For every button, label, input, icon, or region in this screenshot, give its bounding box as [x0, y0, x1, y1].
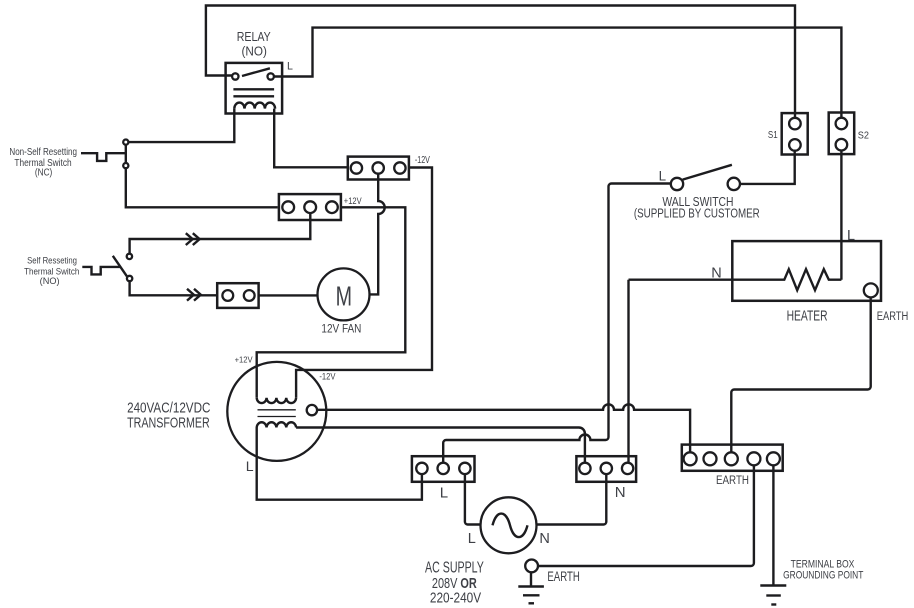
- svg-text:L: L: [847, 228, 855, 244]
- svg-text:GROUNDING POINT: GROUNDING POINT: [783, 570, 864, 582]
- svg-text:12V FAN: 12V FAN: [321, 322, 361, 336]
- svg-text:EARTH: EARTH: [716, 473, 749, 487]
- svg-text:(NO): (NO): [242, 44, 267, 59]
- svg-text:Self Resseting: Self Resseting: [27, 256, 77, 266]
- svg-text:RELAY: RELAY: [237, 29, 271, 44]
- svg-text:220-240V: 220-240V: [430, 591, 482, 607]
- svg-text:N: N: [539, 531, 549, 547]
- svg-text:L: L: [468, 531, 476, 547]
- svg-text:-12V: -12V: [415, 155, 430, 166]
- svg-text:M: M: [336, 281, 352, 312]
- svg-text:EARTH: EARTH: [547, 569, 579, 584]
- svg-text:TRANSFORMER: TRANSFORMER: [127, 414, 210, 431]
- svg-text:(NC): (NC): [35, 167, 52, 178]
- svg-text:Non-Self Resetting: Non-Self Resetting: [9, 147, 77, 158]
- svg-text:N: N: [711, 265, 721, 281]
- svg-text:L: L: [440, 485, 448, 502]
- svg-text:AC SUPPLY: AC SUPPLY: [425, 559, 484, 576]
- svg-text:EARTH: EARTH: [877, 309, 909, 323]
- svg-text:L: L: [246, 458, 254, 474]
- svg-text:+12V: +12V: [235, 355, 253, 365]
- svg-text:L: L: [287, 61, 293, 73]
- svg-text:S2: S2: [858, 130, 869, 141]
- svg-text:N: N: [615, 484, 626, 501]
- svg-text:208V OR: 208V OR: [432, 576, 477, 592]
- svg-text:(NO): (NO): [40, 276, 60, 286]
- svg-text:L: L: [659, 169, 666, 184]
- svg-text:+12V: +12V: [344, 196, 362, 206]
- svg-text:-12V: -12V: [319, 372, 336, 382]
- svg-text:S1: S1: [768, 130, 778, 141]
- svg-text:HEATER: HEATER: [787, 309, 828, 325]
- svg-text:(SUPPLIED BY CUSTOMER: (SUPPLIED BY CUSTOMER: [634, 206, 760, 221]
